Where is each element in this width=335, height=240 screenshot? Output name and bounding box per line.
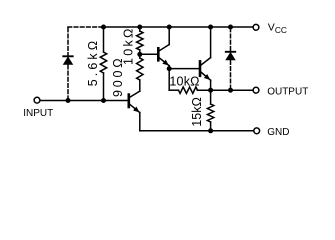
svg-text:INPUT: INPUT (23, 108, 53, 119)
svg-text:5.6kΩ: 5.6kΩ (86, 38, 100, 86)
svg-text:10kΩ: 10kΩ (169, 75, 199, 89)
svg-text:GND: GND (267, 127, 289, 138)
svg-text:OUTPUT: OUTPUT (267, 86, 308, 97)
svg-text:15kΩ: 15kΩ (190, 97, 204, 127)
svg-text:10kΩ: 10kΩ (122, 26, 136, 65)
